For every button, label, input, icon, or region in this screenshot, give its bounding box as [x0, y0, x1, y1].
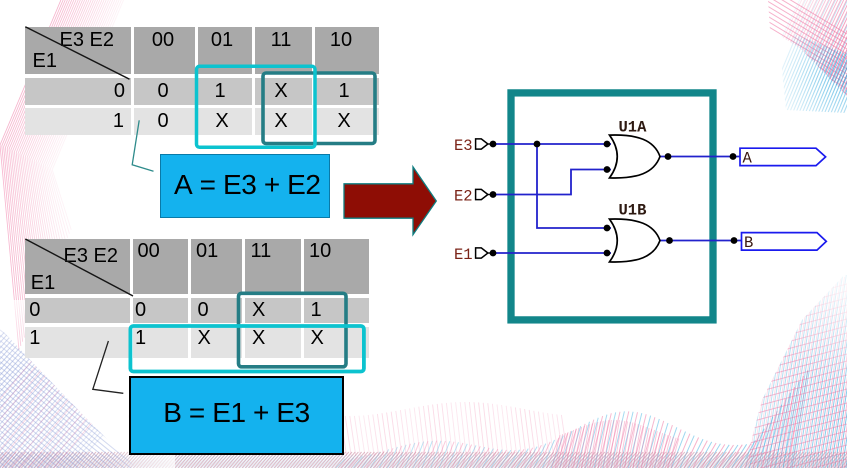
bottom-right net mesh — [746, 275, 847, 468]
K-map table A backing — [25, 27, 379, 135]
wire U1A output to port A — [660, 156, 741, 158]
input port E2 — [476, 189, 488, 199]
K-map table B — [25, 239, 130, 295]
wire E2 to U1A input 2 — [493, 170, 611, 195]
K-map table A — [25, 27, 131, 75]
table B diagonal header line — [25, 239, 133, 296]
schematic boundary box — [511, 93, 713, 320]
equation box A — [160, 154, 330, 218]
svg-text:E2: E2 — [454, 187, 473, 205]
bottom dense strip — [0, 452, 847, 468]
svg-text:B: B — [744, 234, 753, 252]
table A row 0 — [114, 80, 125, 103]
top-right pink mesh — [740, 0, 847, 125]
big red arrow — [344, 167, 436, 235]
OR gate U1A — [610, 135, 661, 178]
wire U1B output to port B — [660, 240, 743, 242]
table B cyan group rectangle — [130, 326, 364, 372]
bottom-left blue net — [0, 314, 201, 468]
bottom steep grass band — [336, 371, 808, 468]
junction dots — [490, 141, 497, 148]
callout line to box B — [93, 341, 124, 393]
top-right cyan fan — [760, 22, 847, 122]
OR gate U1B — [610, 219, 661, 262]
callout line to box A — [132, 120, 153, 171]
svg-text:E1: E1 — [454, 246, 473, 264]
svg-text:U1B: U1B — [619, 202, 647, 220]
output port A — [740, 148, 826, 165]
svg-text:E3: E3 — [454, 137, 473, 155]
table A cyan group rectangle — [197, 66, 316, 147]
table B row 0 — [29, 299, 40, 322]
wire E1 to U1B input 2 — [493, 252, 611, 254]
table A row 1 — [113, 110, 124, 133]
wire E3 to U1A input 1 — [493, 143, 611, 145]
left pink feather pattern — [0, 0, 124, 350]
wire E3 branch to U1B input 1 — [537, 144, 611, 228]
K-map table B backing — [25, 239, 369, 358]
svg-text:U1A: U1A — [619, 119, 648, 137]
table A header labels — [60, 29, 114, 52]
table A dark teal group rectangle — [263, 73, 375, 144]
table A diagonal header line — [25, 27, 129, 79]
svg-text:A: A — [743, 150, 753, 168]
output port B — [742, 233, 827, 251]
input port E1 — [476, 248, 488, 258]
table B dark teal group rectangle — [239, 293, 347, 367]
table B header labels — [64, 245, 118, 268]
equation box B — [129, 376, 344, 455]
table B row 1 — [29, 327, 40, 350]
input port E3 — [476, 139, 488, 149]
bottom light hatch — [129, 402, 567, 456]
